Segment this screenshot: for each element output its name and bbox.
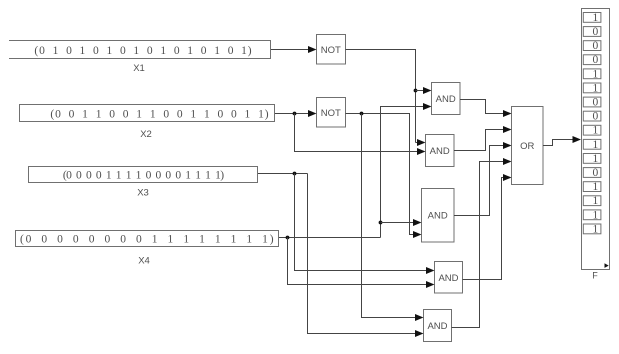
svg-text:0: 0	[593, 54, 599, 66]
svg-text:1: 1	[593, 139, 599, 151]
svg-text:F: F	[592, 271, 598, 281]
svg-text:1: 1	[593, 181, 599, 193]
svg-text:1: 1	[593, 223, 599, 235]
svg-text:0: 0	[593, 111, 599, 123]
svg-text:1: 1	[593, 82, 599, 94]
svg-text:0: 0	[593, 40, 599, 52]
svg-text:AND: AND	[436, 94, 456, 105]
svg-text:1: 1	[593, 195, 599, 207]
svg-text:AND: AND	[430, 146, 450, 157]
svg-text:NOT: NOT	[321, 45, 341, 56]
svg-text:1: 1	[593, 68, 599, 80]
svg-text:1: 1	[593, 209, 599, 221]
svg-text:1: 1	[593, 125, 599, 137]
svg-text:1: 1	[593, 12, 599, 24]
svg-text:X2: X2	[140, 129, 152, 140]
svg-text:AND: AND	[428, 211, 448, 222]
svg-text:1: 1	[593, 153, 599, 165]
svg-text:AND: AND	[427, 321, 447, 332]
svg-text:AND: AND	[438, 273, 458, 284]
svg-text:0: 0	[593, 26, 599, 38]
svg-text:OR: OR	[520, 141, 534, 152]
svg-text:0: 0	[593, 167, 599, 179]
svg-text:X4: X4	[138, 256, 150, 267]
svg-text:X3: X3	[137, 188, 149, 199]
svg-text:0: 0	[593, 97, 599, 109]
svg-text:NOT: NOT	[321, 108, 341, 119]
svg-text:X1: X1	[133, 63, 145, 74]
